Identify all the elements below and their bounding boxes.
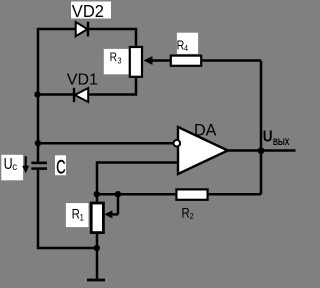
svg-text:3: 3 <box>118 56 123 66</box>
svg-text:DA: DA <box>194 120 217 139</box>
svg-text:R: R <box>72 207 80 222</box>
svg-text:VD2: VD2 <box>72 1 104 22</box>
svg-text:R: R <box>182 206 190 221</box>
svg-text:R: R <box>177 39 185 53</box>
svg-text:4: 4 <box>184 44 189 54</box>
svg-text:c: c <box>12 162 17 173</box>
svg-text:C: C <box>56 156 65 178</box>
svg-text:VD1: VD1 <box>67 71 98 88</box>
svg-text:U: U <box>263 129 273 146</box>
svg-text:2: 2 <box>190 212 194 222</box>
svg-text:1: 1 <box>80 212 85 223</box>
svg-text:R: R <box>110 51 117 64</box>
svg-text:ВЫХ: ВЫХ <box>273 137 290 147</box>
